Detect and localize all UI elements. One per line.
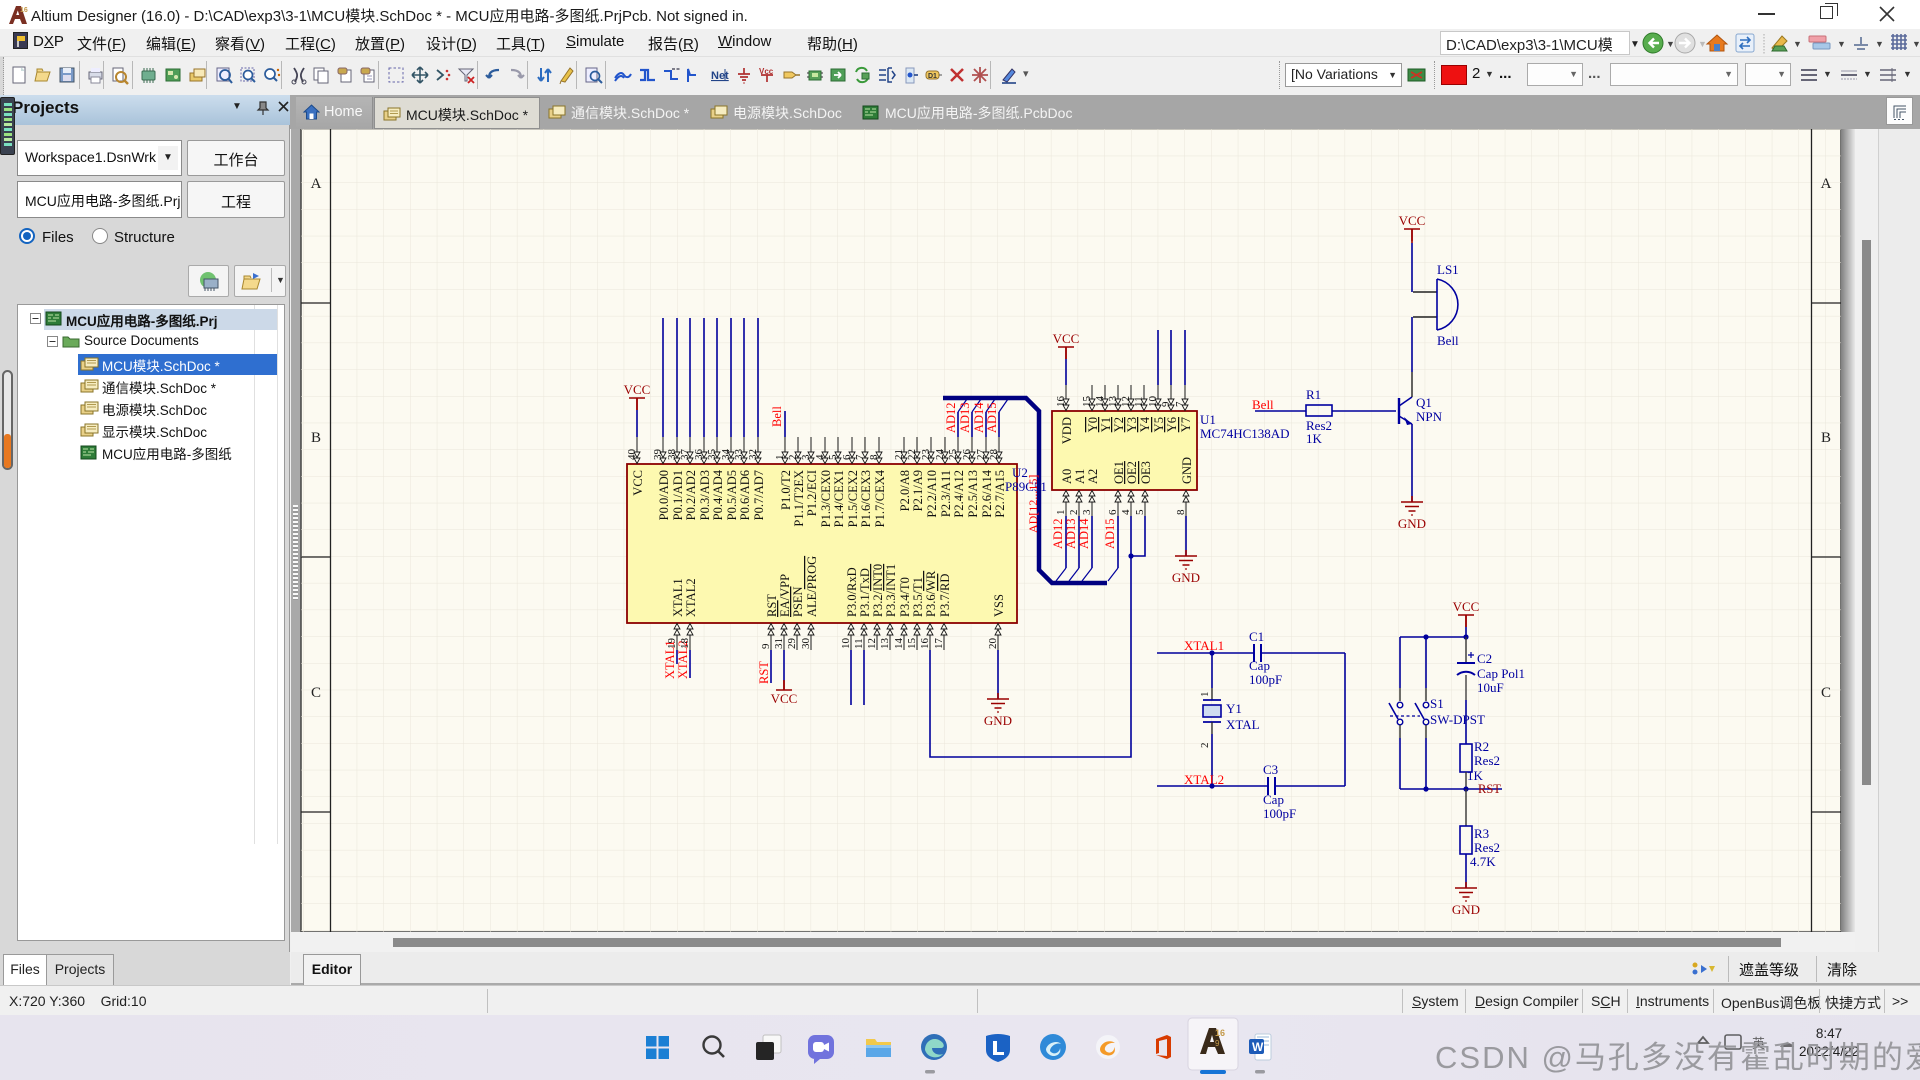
svg-text:100pF: 100pF <box>1263 806 1296 821</box>
svg-text:▼: ▼ <box>1912 39 1920 49</box>
svg-text:33: 33 <box>733 449 745 461</box>
schematic sheet <box>301 129 1841 932</box>
svg-text:3: 3 <box>800 454 812 460</box>
XTAL2 net label left <box>1157 772 1268 789</box>
svg-text:2: 2 <box>787 455 799 461</box>
search <box>704 1037 725 1058</box>
svg-text:▼: ▼ <box>1837 39 1846 49</box>
RST net wire pin9 <box>757 650 771 684</box>
crystal Y1 <box>1199 653 1260 786</box>
svg-text:A: A <box>1821 176 1832 192</box>
Q1 emitter to GND <box>1398 424 1426 531</box>
svg-text:10uF: 10uF <box>1477 680 1504 695</box>
svg-text:6: 6 <box>841 454 853 460</box>
svg-text:P0.3/AD3: P0.3/AD3 <box>698 470 712 520</box>
app9 orange <box>1096 1035 1120 1059</box>
svg-text:4: 4 <box>1120 509 1132 515</box>
address bus (thick) <box>943 398 1107 583</box>
svg-text:Y3: Y3 <box>1125 417 1139 432</box>
svg-text:16: 16 <box>1055 396 1067 408</box>
svg-text:AD15: AD15 <box>1103 518 1117 549</box>
svg-text:2: 2 <box>1199 743 1211 749</box>
svg-text:C: C <box>311 685 321 701</box>
svg-text:2: 2 <box>1068 510 1080 516</box>
tray icons (behind watermark) <box>1698 1035 1794 1051</box>
svg-text:P0.4/AD4: P0.4/AD4 <box>711 469 725 520</box>
svg-text:VCC: VCC <box>1399 213 1426 228</box>
svg-text:1: 1 <box>1055 510 1067 516</box>
U2 top pins <box>626 437 1007 527</box>
svg-text:A: A <box>311 176 322 192</box>
svg-text:12: 12 <box>866 638 878 649</box>
P0 bus wires <box>663 318 758 437</box>
svg-text:P3.4/T0: P3.4/T0 <box>898 577 912 617</box>
svg-text:Y5: Y5 <box>1152 417 1166 432</box>
svg-text:GND: GND <box>1180 457 1194 484</box>
switch S1 SW-DPST <box>1389 637 1485 789</box>
svg-text:C3: C3 <box>1263 762 1278 777</box>
U1 designator <box>1200 412 1290 441</box>
EA/VPP to VCC <box>771 650 798 706</box>
svg-text:11: 11 <box>853 638 865 649</box>
U2 VCC pin40 power <box>624 382 651 437</box>
svg-text:P3.5/T1: P3.5/T1 <box>911 577 925 617</box>
svg-text:OE1: OE1 <box>1112 461 1126 484</box>
U1 bottom pins <box>1055 457 1194 516</box>
app8 <box>1040 1034 1066 1060</box>
svg-text:Y7: Y7 <box>1179 417 1193 432</box>
resistor R3 <box>1460 789 1500 869</box>
svg-text:C1: C1 <box>1249 629 1264 644</box>
svg-text:1: 1 <box>774 455 786 461</box>
svg-text:XTAL: XTAL <box>1226 717 1260 732</box>
svg-text:B: B <box>311 430 321 446</box>
svg-text:A0: A0 <box>1060 469 1074 484</box>
svg-text:XTAL2: XTAL2 <box>684 578 698 617</box>
svg-text:3: 3 <box>1081 509 1093 515</box>
svg-text:35: 35 <box>706 449 718 461</box>
svg-text:24: 24 <box>934 449 946 461</box>
left edge widgets <box>0 97 15 155</box>
svg-text:P0.5/AD5: P0.5/AD5 <box>725 470 739 520</box>
svg-text:VCC: VCC <box>631 470 645 496</box>
svg-text:Q1: Q1 <box>1416 395 1432 410</box>
svg-text:21: 21 <box>893 449 905 460</box>
svg-text:VCC: VCC <box>624 382 651 397</box>
svg-text:SW-DPST: SW-DPST <box>1430 712 1485 727</box>
svg-text:P2.2/A10: P2.2/A10 <box>925 470 939 518</box>
svg-text:EA/VPP: EA/VPP <box>778 574 792 617</box>
editor tab row <box>291 952 1920 985</box>
AD12-AD15 wires to bus <box>944 399 1008 437</box>
svg-text:P3.0/RxD: P3.0/RxD <box>845 567 859 617</box>
win <box>646 1036 669 1059</box>
svg-text:6: 6 <box>1107 509 1119 515</box>
svg-text:39: 39 <box>652 449 664 461</box>
svg-text:P2.1/A9: P2.1/A9 <box>911 470 925 511</box>
svg-text:GND: GND <box>1172 570 1200 585</box>
transistor Q1 <box>1399 395 1443 425</box>
svg-text:P0.0/AD0: P0.0/AD0 <box>657 470 671 520</box>
svg-text:P1.1/T2EX: P1.1/T2EX <box>792 470 806 527</box>
svg-text:P1.3/CEX0: P1.3/CEX0 <box>819 470 833 527</box>
lenovo/app7 <box>986 1034 1010 1062</box>
task view <box>756 1035 781 1060</box>
Q1 collector wire <box>1411 317 1413 372</box>
svg-text:ALE/PROG: ALE/PROG <box>805 556 819 617</box>
svg-text:20: 20 <box>987 638 999 650</box>
svg-text:RST: RST <box>1478 782 1501 796</box>
Bell net wire pin1 <box>770 406 785 437</box>
U1 VCC pin16 <box>1053 331 1080 385</box>
svg-text:14: 14 <box>893 638 905 650</box>
svg-text:9: 9 <box>760 643 772 649</box>
svg-text:P3.6/WR: P3.6/WR <box>924 570 938 617</box>
svg-text:12: 12 <box>1120 396 1132 407</box>
status bar <box>0 985 1920 1015</box>
svg-text:38: 38 <box>666 449 678 461</box>
svg-text:40: 40 <box>626 449 638 461</box>
IC U2 P89C51 <box>627 464 1017 623</box>
svg-text:OE2: OE2 <box>1125 461 1139 484</box>
resistor R2 <box>1460 739 1500 789</box>
svg-text:8: 8 <box>868 454 880 460</box>
RST node wire <box>1400 782 1502 796</box>
word <box>1249 1034 1271 1060</box>
svg-text:22: 22 <box>906 449 918 460</box>
Files/Projects bottom tabs <box>0 952 290 986</box>
svg-text:Res2: Res2 <box>1474 753 1500 768</box>
svg-text:R3: R3 <box>1474 826 1489 841</box>
svg-text:C2: C2 <box>1477 651 1492 666</box>
U1 GND pin8 <box>1172 516 1200 585</box>
svg-text:AD12: AD12 <box>944 402 958 433</box>
svg-text:P2.3/A11: P2.3/A11 <box>939 470 953 517</box>
svg-text:Y2: Y2 <box>1112 417 1126 432</box>
svg-text:9: 9 <box>1215 1039 1220 1048</box>
title bar <box>0 0 1920 29</box>
svg-text:16: 16 <box>20 7 28 14</box>
A0-A2 OE1 wires to bus with labels <box>1051 516 1118 581</box>
svg-text:37: 37 <box>679 449 691 461</box>
svg-text:16: 16 <box>919 638 931 650</box>
svg-text:AD15: AD15 <box>985 402 999 433</box>
right scroll area <box>1841 129 1920 952</box>
svg-text:AD13: AD13 <box>1064 518 1078 549</box>
svg-text:28: 28 <box>988 449 1000 461</box>
windows taskbar <box>0 1015 1920 1080</box>
CSDN watermark <box>1435 1032 1920 1077</box>
svg-text:Bell: Bell <box>1437 333 1459 348</box>
svg-text:P1.0/T2: P1.0/T2 <box>779 470 793 510</box>
svg-text:P3.1/TxD: P3.1/TxD <box>858 568 872 617</box>
altium active box <box>1188 1018 1238 1070</box>
svg-text:29: 29 <box>786 638 798 650</box>
bottom scrollbar <box>291 932 1855 952</box>
svg-text:OE3: OE3 <box>1139 461 1153 484</box>
svg-text:13: 13 <box>879 638 891 650</box>
svg-text:PSEN: PSEN <box>791 586 805 617</box>
svg-text:P3.7/RD: P3.7/RD <box>938 574 952 617</box>
svg-text:B: B <box>1821 430 1831 446</box>
svg-text:15: 15 <box>906 638 918 650</box>
svg-text:9: 9 <box>1160 401 1172 407</box>
svg-text:VCC: VCC <box>1453 599 1480 614</box>
svg-text:VSS: VSS <box>992 594 1006 617</box>
svg-text:P0.6/AD6: P0.6/AD6 <box>738 470 752 520</box>
svg-text:Net: Net <box>711 70 729 82</box>
svg-text:C: C <box>1821 685 1831 701</box>
svg-text:7: 7 <box>854 454 866 460</box>
svg-text:Cap: Cap <box>1263 792 1284 807</box>
svg-text:▼: ▼ <box>1875 39 1884 49</box>
svg-text:4: 4 <box>814 454 826 460</box>
wire R1 to Q1 base <box>1332 410 1396 412</box>
svg-text:27: 27 <box>975 449 987 461</box>
svg-text:P0.2/AD2: P0.2/AD2 <box>684 470 698 520</box>
svg-text:13: 13 <box>1107 396 1119 408</box>
svg-text:P1.2/ECI: P1.2/ECI <box>805 470 819 516</box>
svg-text:10: 10 <box>1147 396 1159 408</box>
svg-text:Cap Pol1: Cap Pol1 <box>1477 666 1525 681</box>
svg-text:GND: GND <box>1452 902 1480 917</box>
svg-text:A1: A1 <box>1073 469 1087 484</box>
P3.0 P3.1 wires <box>851 650 864 705</box>
svg-text:XTAL1: XTAL1 <box>1184 638 1224 653</box>
OE2 OE3 tie <box>1128 516 1145 559</box>
svg-text:Y1: Y1 <box>1226 701 1242 716</box>
svg-text:11: 11 <box>1133 396 1145 407</box>
svg-text:P0.1/AD1: P0.1/AD1 <box>671 470 685 520</box>
U1 top pins <box>1055 385 1193 444</box>
svg-text:AD13: AD13 <box>958 402 972 433</box>
svg-text:P3.2/INT0: P3.2/INT0 <box>871 564 885 617</box>
svg-text:32: 32 <box>747 449 759 460</box>
svg-text:25: 25 <box>947 449 959 461</box>
svg-text:17: 17 <box>933 638 945 650</box>
capacitor C2 polar <box>1457 637 1525 744</box>
svg-text:P2.6/A14: P2.6/A14 <box>980 469 994 517</box>
svg-text:14: 14 <box>1094 396 1106 408</box>
svg-text:P3.3/INT1: P3.3/INT1 <box>884 564 898 617</box>
U2 designator <box>1005 465 1047 494</box>
svg-text:RST: RST <box>757 661 771 684</box>
svg-text:Y4: Y4 <box>1138 416 1152 432</box>
svg-text:31: 31 <box>773 638 785 649</box>
IC U1 MC74HC138AD <box>1052 411 1197 490</box>
P3.6/WR wire to OE tie <box>930 556 1131 757</box>
svg-text:18: 18 <box>679 638 691 650</box>
svg-text:5: 5 <box>1134 509 1146 515</box>
svg-text:LS1: LS1 <box>1437 262 1459 277</box>
svg-text:P2.5/A13: P2.5/A13 <box>966 470 980 518</box>
svg-text:16: 16 <box>1215 1028 1225 1038</box>
svg-text:Res2: Res2 <box>1474 840 1500 855</box>
svg-text:R1: R1 <box>1306 387 1321 402</box>
Bell net label + wire <box>1252 397 1306 412</box>
XTAL net labels under pins 19/18 <box>663 638 691 680</box>
svg-text:AD14: AD14 <box>1077 518 1091 549</box>
svg-text:GND: GND <box>1398 516 1426 531</box>
svg-text:A2: A2 <box>1086 469 1100 484</box>
svg-text:P1.7/CEX4: P1.7/CEX4 <box>873 469 887 527</box>
svg-text:Cap: Cap <box>1249 658 1270 673</box>
svg-text:1K: 1K <box>1467 768 1484 783</box>
svg-text:Y1: Y1 <box>1099 417 1113 432</box>
svg-text:Bell: Bell <box>1252 397 1274 412</box>
svg-text:1K: 1K <box>1306 431 1323 446</box>
svg-text:100pF: 100pF <box>1249 672 1282 687</box>
svg-text:XTAL1: XTAL1 <box>671 578 685 617</box>
speaker LS1 (Bell) <box>1413 262 1459 348</box>
svg-text:GND: GND <box>984 713 1012 728</box>
capacitor C1 <box>1249 629 1345 687</box>
svg-text:D1: D1 <box>928 73 937 80</box>
toolbar <box>0 57 1920 95</box>
VCC reset <box>1453 599 1480 637</box>
right loop wire <box>1344 653 1346 786</box>
svg-text:34: 34 <box>720 449 732 461</box>
svg-text:15: 15 <box>1081 396 1093 408</box>
svg-text:▼: ▼ <box>1698 39 1707 49</box>
svg-text:AD[12...15]: AD[12...15] <box>1026 475 1040 533</box>
svg-text:P1.6/CEX3: P1.6/CEX3 <box>859 470 873 527</box>
capacitor C3 <box>1263 762 1345 821</box>
svg-text:AD12: AD12 <box>1051 518 1065 549</box>
svg-text:U1: U1 <box>1200 412 1216 427</box>
Y5 Y6 Y7 wires up <box>1158 330 1185 385</box>
svg-text:23: 23 <box>920 449 932 461</box>
svg-text:4.7K: 4.7K <box>1470 854 1496 869</box>
document tab bar <box>0 95 1920 129</box>
menu bar <box>0 29 1920 57</box>
svg-text:XTAL2: XTAL2 <box>1184 772 1224 787</box>
office <box>1156 1035 1171 1059</box>
svg-text:10: 10 <box>840 638 852 650</box>
svg-text:P2.4/A12: P2.4/A12 <box>952 470 966 518</box>
svg-text:26: 26 <box>961 449 973 461</box>
svg-text:▼: ▼ <box>1666 39 1675 49</box>
svg-text:Y6: Y6 <box>1165 417 1179 432</box>
LS1 VCC <box>1399 213 1426 292</box>
svg-text:P1.5/CEX2: P1.5/CEX2 <box>846 470 860 527</box>
XTAL1 net label left <box>1157 638 1254 656</box>
svg-text:AD14: AD14 <box>972 402 986 433</box>
R3 to GND <box>1452 854 1480 917</box>
edge <box>921 1034 947 1060</box>
svg-text:36: 36 <box>693 449 705 461</box>
resistor R1 <box>1306 387 1332 446</box>
svg-text:VDD: VDD <box>1060 417 1074 444</box>
svg-text:P2.0/A8: P2.0/A8 <box>898 470 912 511</box>
svg-text:Y0: Y0 <box>1086 417 1100 432</box>
svg-text:VCC: VCC <box>771 691 798 706</box>
svg-text:1: 1 <box>1199 692 1211 698</box>
svg-text:▼: ▼ <box>1793 39 1802 49</box>
svg-text:P1.4/CEX1: P1.4/CEX1 <box>832 470 846 527</box>
explorer <box>866 1039 891 1057</box>
svg-text:R2: R2 <box>1474 739 1489 754</box>
svg-text:19: 19 <box>666 638 678 650</box>
svg-text:RST: RST <box>765 594 779 617</box>
svg-text:S1: S1 <box>1430 696 1444 711</box>
svg-text:7: 7 <box>1174 401 1186 407</box>
U2 VSS GND <box>984 650 1012 728</box>
svg-text:8: 8 <box>1175 509 1187 515</box>
svg-text:MC74HC138AD: MC74HC138AD <box>1200 426 1290 441</box>
U2 bottom pins <box>671 556 1006 650</box>
projects panel <box>0 95 290 986</box>
svg-text:P0.7/AD7: P0.7/AD7 <box>752 470 766 520</box>
project tree <box>18 305 284 844</box>
svg-text:Bell: Bell <box>770 406 784 427</box>
svg-text:5: 5 <box>827 454 839 460</box>
sheet zone borders <box>301 129 1841 932</box>
svg-text:NPN: NPN <box>1416 409 1443 424</box>
svg-text:VCC: VCC <box>1053 331 1080 346</box>
top node wire <box>1400 634 1469 639</box>
svg-text:W: W <box>1252 1040 1264 1054</box>
chat <box>808 1035 834 1064</box>
svg-text:30: 30 <box>800 638 812 650</box>
